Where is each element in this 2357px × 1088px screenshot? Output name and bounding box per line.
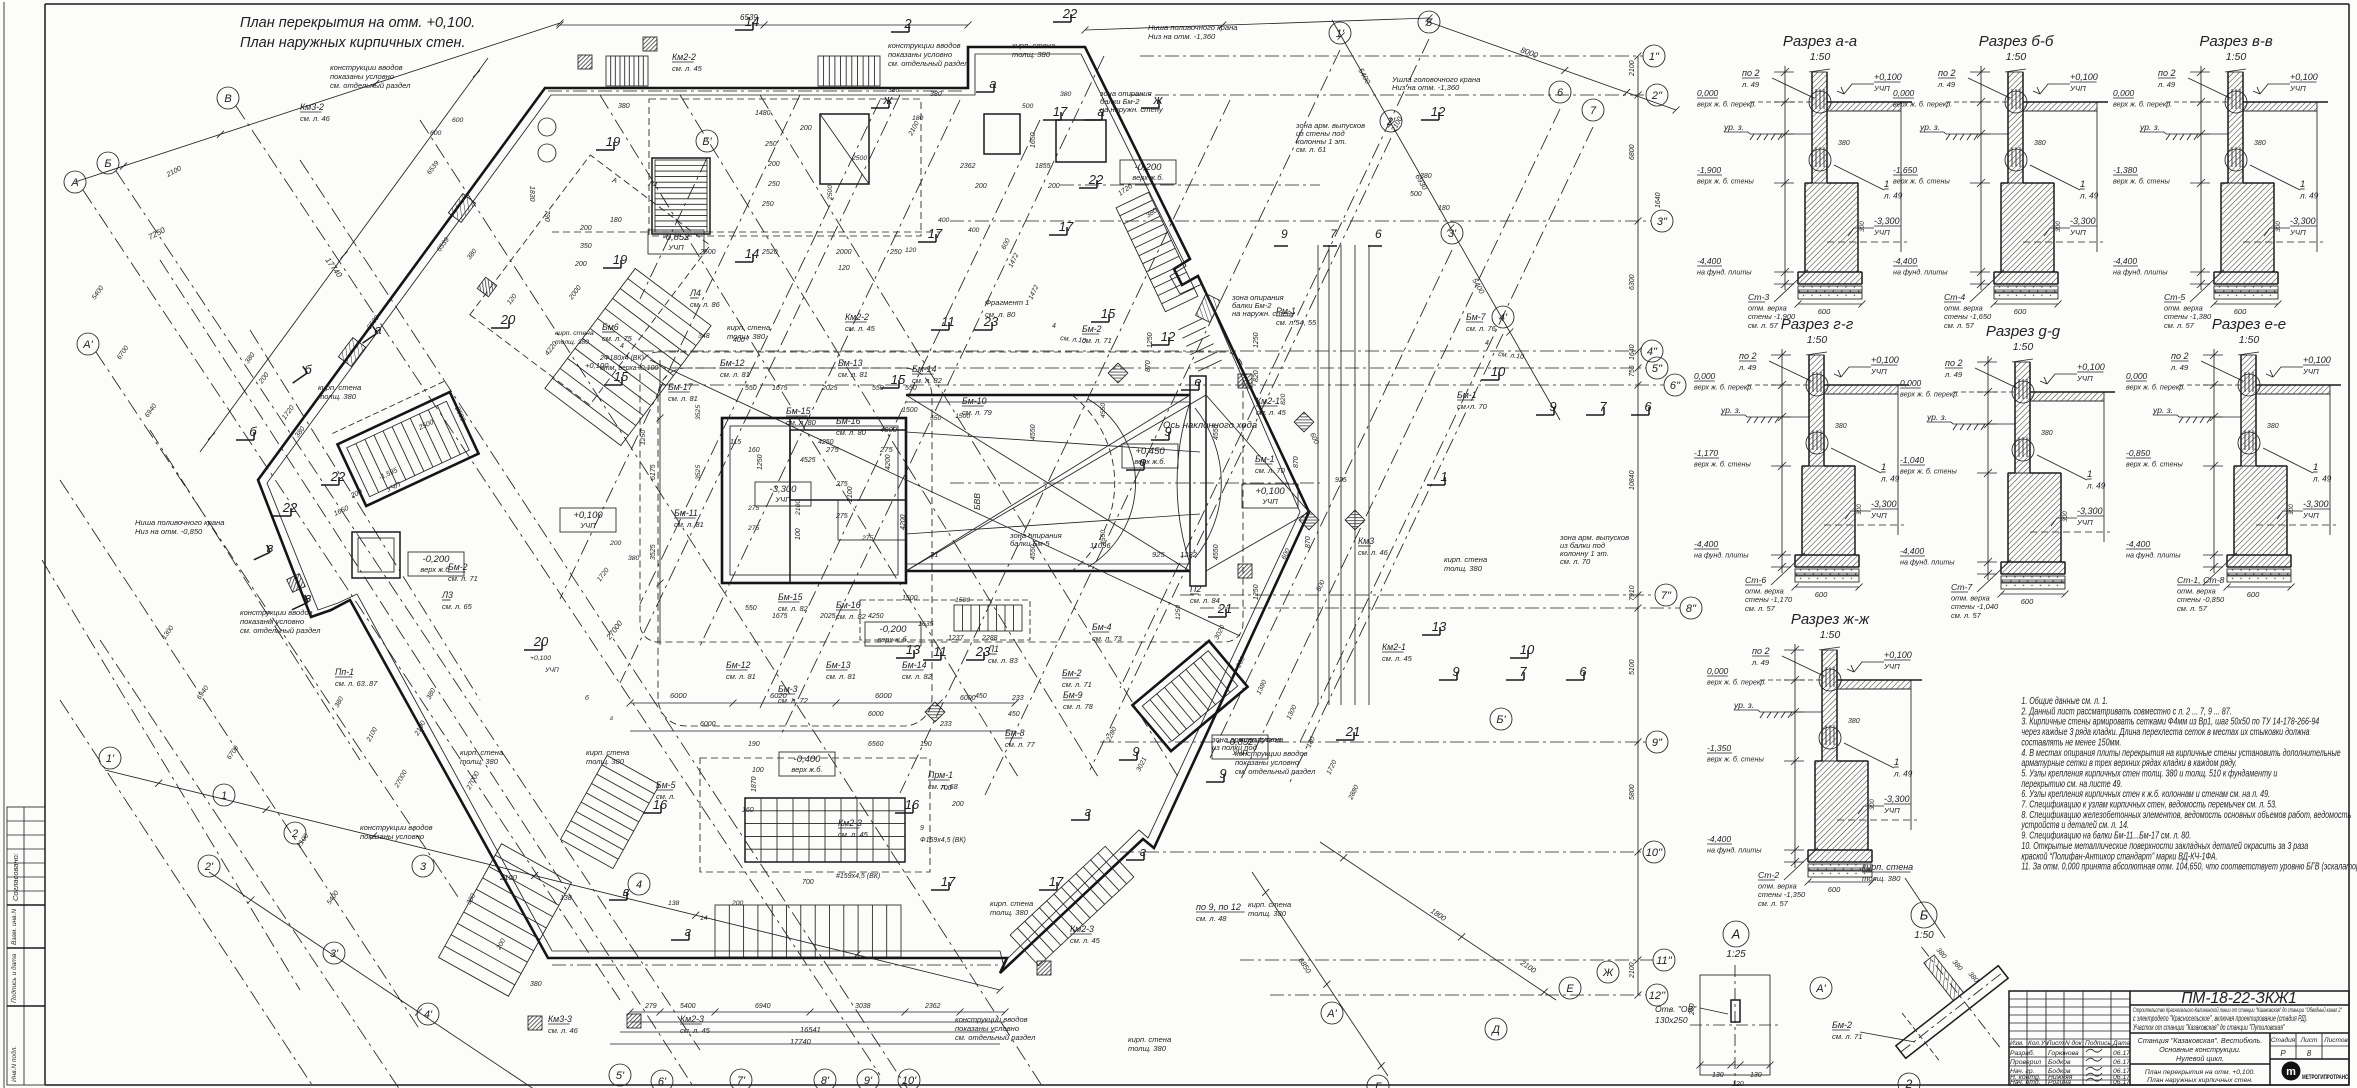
svg-text:2362: 2362 <box>959 163 976 170</box>
svg-text:9: 9 <box>1164 424 1171 439</box>
svg-text:1640: 1640 <box>1629 344 1636 360</box>
svg-text:Км2-3: Км2-3 <box>1070 924 1094 934</box>
svg-text:6000: 6000 <box>868 711 884 718</box>
svg-text:верх ж. б. стены: верх ж. б. стены <box>1900 467 1957 476</box>
svg-text:см. отдельный раздел: см. отдельный раздел <box>955 1033 1036 1042</box>
svg-text:УЧП: УЧП <box>1873 228 1890 237</box>
svg-text:кирп. стена: кирп. стена <box>1128 1035 1171 1044</box>
svg-text:Б': Б' <box>1496 714 1506 726</box>
svg-text:В: В <box>224 93 231 105</box>
svg-text:конструкции вводов: конструкции вводов <box>360 823 433 832</box>
svg-text:6000: 6000 <box>700 721 716 728</box>
svg-text:200: 200 <box>974 183 987 190</box>
svg-text:УЧП: УЧП <box>2302 511 2319 520</box>
svg-text:4200: 4200 <box>885 454 892 470</box>
svg-text:600: 600 <box>2247 590 2260 599</box>
svg-text:19: 19 <box>613 252 627 267</box>
svg-text:см. л. 70: см. л. 70 <box>1255 466 1286 475</box>
svg-text:380: 380 <box>628 555 640 562</box>
svg-text:на фунд. плиты: на фунд. плиты <box>1694 551 1749 560</box>
svg-text:2025: 2025 <box>819 613 836 620</box>
svg-text:верх ж. б. перекр.: верх ж. б. перекр. <box>2113 100 2172 109</box>
svg-text:Проверил: Проверил <box>2010 1059 2041 1066</box>
svg-text:кирп. стена: кирп. стена <box>1012 41 1055 50</box>
svg-text:-4,400: -4,400 <box>1694 539 1718 549</box>
svg-text:550: 550 <box>745 605 757 612</box>
svg-text:11: 11 <box>941 314 955 329</box>
svg-text:см. л. 45: см. л. 45 <box>1256 408 1287 417</box>
svg-text:УЧП: УЧП <box>1261 497 1278 506</box>
svg-text:на фунд. плиты: на фунд. плиты <box>1900 558 1955 567</box>
svg-text:см. л. 61: см. л. 61 <box>1296 145 1326 154</box>
svg-text:Разрез г-г: Разрез г-г <box>1781 316 1854 333</box>
svg-text:л. 49: л. 49 <box>2157 80 2176 89</box>
svg-text:15: 15 <box>1101 306 1116 321</box>
svg-text:1: 1 <box>1894 757 1899 768</box>
svg-text:Дата: Дата <box>2112 1040 2131 1047</box>
svg-text:Р: Р <box>2280 1049 2286 1058</box>
svg-text:17: 17 <box>1049 874 1064 889</box>
svg-text:2100: 2100 <box>1629 60 1636 77</box>
svg-text:1500: 1500 <box>955 597 970 604</box>
svg-text:-3,300: -3,300 <box>2077 506 2103 516</box>
svg-text:1: 1 <box>2087 469 2092 480</box>
svg-text:0,000: 0,000 <box>1893 88 1915 98</box>
svg-text:1:50: 1:50 <box>2006 51 2027 63</box>
svg-text:Л1: Л1 <box>987 644 999 654</box>
svg-text:790: 790 <box>543 210 550 222</box>
svg-text:14: 14 <box>745 246 759 261</box>
svg-text:л. 49: л. 49 <box>1944 370 1963 379</box>
svg-text:-3,300: -3,300 <box>1871 499 1897 509</box>
svg-text:Основные конструкции.: Основные конструкции. <box>2159 1045 2241 1054</box>
svg-text:ПМ-18-22-ЗКЖ1: ПМ-18-22-ЗКЖ1 <box>2181 990 2297 1007</box>
svg-text:см. л. 82: см. л. 82 <box>912 376 943 385</box>
svg-text:14: 14 <box>700 915 708 922</box>
svg-text:1830: 1830 <box>528 186 535 202</box>
svg-text:УЧП: УЧП <box>2289 228 2306 237</box>
svg-text:на наружн. стену: на наружн. стену <box>1100 105 1164 114</box>
svg-text:толщ. 380: толщ. 380 <box>1012 50 1051 59</box>
svg-text:1: 1 <box>2313 462 2318 473</box>
svg-text:см. л. 81: см. л. 81 <box>838 370 868 379</box>
svg-text:толщ. 380: толщ. 380 <box>1248 909 1287 918</box>
svg-text:Л3: Л3 <box>441 590 453 600</box>
svg-text:Нулевой цикл.: Нулевой цикл. <box>2176 1054 2224 1063</box>
svg-text:см. л. 63..87: см. л. 63..87 <box>335 679 378 688</box>
svg-text:550: 550 <box>745 385 757 392</box>
svg-text:кирп. стена: кирп. стена <box>460 748 503 757</box>
svg-text:250: 250 <box>761 201 774 208</box>
svg-text:16541: 16541 <box>800 1025 821 1034</box>
svg-text:600: 600 <box>1815 590 1828 599</box>
svg-text:толщ. 380: толщ. 380 <box>1862 874 1901 883</box>
svg-text:15: 15 <box>891 372 906 387</box>
svg-text:-1,350: -1,350 <box>1707 743 1731 753</box>
svg-text:300: 300 <box>2055 221 2062 232</box>
svg-text:1480: 1480 <box>755 110 771 117</box>
svg-text:6000: 6000 <box>670 691 688 700</box>
svg-text:на фунд. плиты: на фунд. плиты <box>2113 268 2168 277</box>
svg-text:см. л. 57: см. л. 57 <box>1758 899 1789 908</box>
svg-text:250: 250 <box>764 141 777 148</box>
svg-text:275: 275 <box>861 535 874 542</box>
svg-text:см. л. 82: см. л. 82 <box>836 612 867 621</box>
svg-text:б: б <box>249 424 257 439</box>
svg-text:показаны условно: показаны условно <box>240 617 304 626</box>
svg-text:по 2: по 2 <box>1739 351 1756 361</box>
svg-text:Бм-13: Бм-13 <box>826 660 851 670</box>
svg-text:верх ж. б. перекр.: верх ж. б. перекр. <box>2126 383 2185 392</box>
svg-text:см. л. 65: см. л. 65 <box>442 602 473 611</box>
svg-text:0,000: 0,000 <box>2113 88 2135 98</box>
svg-text:в: в <box>623 884 630 899</box>
svg-text:л. 49: л. 49 <box>1751 658 1770 667</box>
svg-text:-0,850: -0,850 <box>2126 448 2150 458</box>
svg-text:см. л. 57: см. л. 57 <box>1951 611 1982 620</box>
svg-text:-4,400: -4,400 <box>1707 834 1731 844</box>
svg-text:ур. з.: ур. з. <box>1733 700 1754 710</box>
svg-text:см. л. 82: см. л. 82 <box>902 672 933 681</box>
svg-text:300: 300 <box>1856 504 1863 515</box>
svg-text:Бм-17: Бм-17 <box>668 382 694 392</box>
svg-text:275: 275 <box>747 525 760 532</box>
svg-text:9'': 9'' <box>1652 737 1663 749</box>
svg-text:верх ж. б. стены: верх ж. б. стены <box>1694 460 1751 469</box>
svg-text:600: 600 <box>2014 307 2027 316</box>
svg-text:УЧП: УЧП <box>2302 367 2319 376</box>
svg-text:755: 755 <box>1629 365 1636 377</box>
svg-text:УЧП: УЧП <box>2076 518 2093 527</box>
svg-text:А: А <box>70 177 78 189</box>
svg-text:1: 1 <box>2300 179 2305 190</box>
svg-text:2100: 2100 <box>795 500 802 516</box>
svg-text:толщ. 380: толщ. 380 <box>318 392 357 401</box>
svg-text:на фунд. плиты: на фунд. плиты <box>1893 268 1948 277</box>
svg-text:2500: 2500 <box>827 185 834 201</box>
svg-text:верх ж. б. перекр.: верх ж. б. перекр. <box>1697 100 1756 109</box>
svg-text:см. л. 45: см. л. 45 <box>845 324 876 333</box>
svg-text:1:50: 1:50 <box>2239 334 2260 346</box>
svg-text:9: 9 <box>1452 664 1459 679</box>
svg-text:180: 180 <box>610 217 622 224</box>
svg-text:отм. верха+0,100: отм. верха+0,100 <box>600 365 658 372</box>
svg-text:Км3: Км3 <box>1358 536 1374 546</box>
svg-text:4: 4 <box>1485 340 1489 347</box>
svg-text:ур. з.: ур. з. <box>1723 122 1744 132</box>
svg-text:см. л. 84: см. л. 84 <box>1190 596 1220 605</box>
svg-text:Бм-8: Бм-8 <box>1005 728 1025 738</box>
svg-text:100: 100 <box>795 528 802 540</box>
svg-text:1:50: 1:50 <box>1914 930 1934 941</box>
svg-text:Лист: Лист <box>2300 1037 2318 1044</box>
svg-text:+0,100: +0,100 <box>530 655 551 662</box>
svg-text:Бм-14: Бм-14 <box>902 660 927 670</box>
svg-text:600: 600 <box>452 117 464 124</box>
svg-text:План перекрытия на отм. +0,100: План перекрытия на отм. +0,100. <box>240 15 475 31</box>
svg-text:9: 9 <box>1549 399 1556 414</box>
svg-text:верх ж.б.: верх ж.б. <box>420 565 451 574</box>
svg-text:1675: 1675 <box>772 613 788 620</box>
svg-text:-0,200: -0,200 <box>880 624 908 635</box>
svg-text:+0,100: +0,100 <box>2303 355 2331 365</box>
svg-text:Г: Г <box>1375 1081 1382 1088</box>
svg-text:кирп. стена: кирп. стена <box>1862 862 1913 872</box>
svg-text:верх ж.б.: верх ж.б. <box>877 635 908 644</box>
svg-text:стены -1,350: стены -1,350 <box>1758 890 1806 899</box>
svg-text:см. л. 46: см. л. 46 <box>548 1026 579 1035</box>
svg-text:275: 275 <box>835 513 848 520</box>
svg-text:Разрез в-в: Разрез в-в <box>2199 33 2272 50</box>
svg-text:1'': 1'' <box>1649 51 1660 63</box>
svg-text:233: 233 <box>1011 695 1024 702</box>
svg-text:Разрез g-g: Разрез g-g <box>1986 323 2061 340</box>
svg-text:6800: 6800 <box>1629 144 1636 160</box>
svg-text:Км3-3: Км3-3 <box>548 1014 572 1024</box>
svg-text:Бм-1: Бм-1 <box>1255 454 1275 464</box>
svg-text:см. л. 57: см. л. 57 <box>1745 604 1776 613</box>
svg-text:БВВ: БВВ <box>972 493 982 510</box>
svg-text:550: 550 <box>930 415 942 422</box>
svg-text:Инв.N подл.: Инв.N подл. <box>10 1046 18 1082</box>
svg-text:12: 12 <box>1161 329 1176 344</box>
svg-text:7: 7 <box>1519 664 1527 679</box>
svg-text:11'': 11'' <box>1656 955 1673 967</box>
svg-text:Рогина: Рогина <box>2048 1079 2071 1086</box>
svg-text:Д: Д <box>1490 1024 1500 1036</box>
svg-text:Бм-1: Бм-1 <box>1457 390 1477 400</box>
svg-text:-3,300: -3,300 <box>1874 216 1900 226</box>
svg-text:-1,650: -1,650 <box>1893 165 1917 175</box>
svg-text:л. 49: л. 49 <box>2299 192 2319 201</box>
svg-text:275: 275 <box>747 505 760 512</box>
svg-text:4550: 4550 <box>1100 403 1107 418</box>
svg-text:Бм-10: Бм-10 <box>962 396 987 406</box>
svg-text:21: 21 <box>1345 724 1360 739</box>
svg-text:380: 380 <box>618 103 630 110</box>
svg-text:Км2-2: Км2-2 <box>845 312 869 322</box>
svg-text:по 9, по 12: по 9, по 12 <box>1196 902 1241 912</box>
svg-text:см. л.: см. л. <box>656 792 675 801</box>
svg-text:Пп-1: Пп-1 <box>335 667 354 677</box>
svg-text:Согласовано:: Согласовано: <box>11 853 20 901</box>
svg-text:-4,400: -4,400 <box>1900 546 1924 556</box>
svg-text:ур. з.: ур. з. <box>2152 405 2173 415</box>
svg-text:17: 17 <box>1059 219 1074 234</box>
svg-text:350: 350 <box>580 243 592 250</box>
svg-text:-4,400: -4,400 <box>2113 256 2137 266</box>
svg-text:Низ на отм. -1,360: Низ на отм. -1,360 <box>1148 32 1216 41</box>
svg-text:1250: 1250 <box>757 454 764 470</box>
svg-text:Кол.Уч: Кол.Уч <box>2028 1040 2049 1047</box>
svg-text:1675: 1675 <box>772 385 788 392</box>
svg-text:см. л. 70: см. л. 70 <box>1560 557 1591 566</box>
svg-text:на фунд. плиты: на фунд. плиты <box>1707 846 1762 855</box>
svg-text:Км2-1: Км2-1 <box>1382 642 1406 652</box>
svg-text:600: 600 <box>430 130 442 137</box>
svg-text:кирп. стена: кирп. стена <box>555 330 594 337</box>
svg-text:Бм-9: Бм-9 <box>1063 690 1083 700</box>
svg-text:см. л. 45: см. л. 45 <box>672 64 703 73</box>
svg-text:л. 49: л. 49 <box>2312 475 2332 484</box>
svg-text:6560: 6560 <box>868 741 884 748</box>
svg-text:см. л. 80: см. л. 80 <box>786 418 817 427</box>
svg-text:275: 275 <box>835 481 848 488</box>
svg-text:380: 380 <box>1838 140 1850 147</box>
svg-text:стены -0,850: стены -0,850 <box>2177 595 2225 604</box>
svg-text:115: 115 <box>730 439 741 446</box>
svg-text:см. л. 81: см. л. 81 <box>668 394 698 403</box>
svg-text:из полки под: из полки под <box>1212 743 1257 752</box>
svg-text:22: 22 <box>330 469 346 484</box>
svg-text:л. 49: л. 49 <box>2079 192 2099 201</box>
svg-text:-3,300: -3,300 <box>2290 216 2316 226</box>
svg-text:6000: 6000 <box>960 695 976 702</box>
svg-text:200: 200 <box>609 540 622 547</box>
svg-text:верх ж.б.: верх ж.б. <box>1132 173 1163 182</box>
svg-text:17: 17 <box>928 226 943 241</box>
svg-text:300: 300 <box>2062 511 2069 522</box>
svg-text:Бм-2: Бм-2 <box>1062 668 1082 678</box>
svg-text:9: 9 <box>920 825 924 832</box>
svg-text:Бм6: Бм6 <box>602 322 619 332</box>
svg-text:Разрез б-б: Разрез б-б <box>1979 33 2054 50</box>
svg-text:л. 49: л. 49 <box>1880 475 1900 484</box>
svg-text:см. л. 81: см. л. 81 <box>674 520 704 529</box>
svg-text:380: 380 <box>1420 173 1432 180</box>
svg-text:-3,300: -3,300 <box>1884 794 1910 804</box>
svg-text:10: 10 <box>1491 364 1506 379</box>
svg-text:Разрез е-е: Разрез е-е <box>2212 316 2286 333</box>
svg-text:ур. з.: ур. з. <box>1926 412 1947 422</box>
svg-text:г: г <box>1085 804 1092 819</box>
svg-text:1: 1 <box>2080 179 2085 190</box>
svg-text:в: в <box>305 590 312 605</box>
svg-text:925: 925 <box>1335 477 1347 484</box>
svg-text:УЧП: УЧП <box>1870 511 1887 520</box>
svg-text:-0,852: -0,852 <box>663 232 691 243</box>
svg-text:4250: 4250 <box>818 439 834 446</box>
svg-text:см. л. 76: см. л. 76 <box>1466 324 1497 333</box>
svg-text:б: б <box>304 362 312 377</box>
svg-text:Бм-11: Бм-11 <box>674 508 698 518</box>
svg-text:см. л. 46: см. л. 46 <box>300 114 331 123</box>
svg-text:А': А' <box>82 339 93 351</box>
svg-text:7: 7 <box>1590 105 1597 117</box>
svg-text:600: 600 <box>1828 885 1841 894</box>
svg-text:-1,380: -1,380 <box>2113 165 2137 175</box>
svg-text:показаны условно: показаны условно <box>360 832 424 841</box>
svg-text:Ст-2: Ст-2 <box>1758 870 1779 880</box>
svg-text:0,000: 0,000 <box>1694 371 1716 381</box>
svg-text:УЧП: УЧП <box>1870 367 1887 376</box>
svg-text:УЧП: УЧП <box>2069 228 2086 237</box>
svg-text:толщ. 380: толщ. 380 <box>990 908 1029 917</box>
svg-text:700: 700 <box>940 785 952 792</box>
svg-text:10': 10' <box>902 1075 917 1087</box>
svg-text:Бм-16: Бм-16 <box>836 600 861 610</box>
svg-text:см. л. 46: см. л. 46 <box>1358 548 1389 557</box>
svg-text:2': 2' <box>204 861 214 873</box>
svg-text:конструкции вводов: конструкции вводов <box>888 41 961 50</box>
svg-text:1250: 1250 <box>1253 584 1260 600</box>
svg-text:2'': 2'' <box>1651 90 1663 102</box>
svg-text:1:50: 1:50 <box>1810 51 1831 63</box>
svg-text:31: 31 <box>930 550 938 559</box>
svg-text:-3,300: -3,300 <box>2303 499 2329 509</box>
svg-text:Км2-3: Км2-3 <box>838 818 862 828</box>
svg-text:Е: Е <box>1566 983 1574 995</box>
svg-text:ур. з.: ур. з. <box>1919 122 1940 132</box>
svg-text:6300: 6300 <box>1629 274 1636 290</box>
svg-text:4550: 4550 <box>1100 530 1107 545</box>
svg-text:e: e <box>1194 374 1201 389</box>
svg-text:550: 550 <box>905 385 917 392</box>
svg-text:см. л. 70: см. л. 70 <box>1457 402 1488 411</box>
svg-text:Бм-7: Бм-7 <box>1466 312 1487 322</box>
svg-text:200: 200 <box>1047 183 1060 190</box>
svg-text:Км2-2: Км2-2 <box>672 52 696 62</box>
svg-text:см. л. 71: см. л. 71 <box>448 574 478 583</box>
svg-text:6000: 6000 <box>875 691 893 700</box>
svg-text:9: 9 <box>1281 227 1288 241</box>
svg-text:Б: Б <box>1920 908 1929 923</box>
svg-text:Взам. инв.N: Взам. инв.N <box>11 909 18 945</box>
svg-text:см. л. 80: см. л. 80 <box>836 428 867 437</box>
svg-text:+0,100: +0,100 <box>1871 355 1899 365</box>
svg-text:л. 49: л. 49 <box>1937 80 1956 89</box>
svg-text:Подпись и дата: Подпись и дата <box>10 953 18 1003</box>
svg-text:см. отдельный раздел: см. отдельный раздел <box>1235 767 1316 776</box>
svg-text:500: 500 <box>1022 103 1034 110</box>
svg-text:4800: 4800 <box>880 425 898 434</box>
svg-text:17: 17 <box>941 874 956 889</box>
svg-text:400: 400 <box>733 337 745 344</box>
svg-text:стены -1,170: стены -1,170 <box>1745 595 1793 604</box>
svg-text:Бм-16: Бм-16 <box>836 416 861 426</box>
svg-text:1500: 1500 <box>902 407 918 414</box>
svg-text:600: 600 <box>2234 307 2247 316</box>
svg-text:4: 4 <box>620 343 624 350</box>
svg-text:275: 275 <box>879 445 893 454</box>
svg-text:N док: N док <box>2065 1039 2083 1047</box>
svg-text:4'': 4'' <box>1647 346 1658 358</box>
svg-text:-1,170: -1,170 <box>1694 448 1718 458</box>
svg-text:см. отдельный раздел: см. отдельный раздел <box>330 81 411 90</box>
svg-text:Бм-14: Бм-14 <box>912 364 937 374</box>
svg-text:2100: 2100 <box>499 873 518 882</box>
svg-text:УЧП: УЧП <box>544 667 559 674</box>
svg-text:см. л. 71: см. л. 71 <box>1082 336 1112 345</box>
svg-text:130х250: 130х250 <box>1655 1015 1688 1025</box>
svg-text:3: 3 <box>420 861 427 873</box>
svg-text:870: 870 <box>1305 536 1312 548</box>
svg-text:1237: 1237 <box>948 635 965 642</box>
svg-text:см. л. 86: см. л. 86 <box>690 300 721 309</box>
svg-text:см. отдельный раздел: см. отдельный раздел <box>240 626 321 635</box>
svg-text:толщ. 380: толщ. 380 <box>1128 1044 1167 1053</box>
svg-text:+0,100: +0,100 <box>573 510 603 521</box>
svg-text:380: 380 <box>2267 423 2279 430</box>
svg-text:Бм-12: Бм-12 <box>726 660 751 670</box>
svg-text:9: 9 <box>1132 744 1139 759</box>
svg-text:6: 6 <box>1579 664 1587 679</box>
svg-text:верх ж. б. перекр.: верх ж. б. перекр. <box>1893 100 1952 109</box>
svg-text:1:50: 1:50 <box>1807 334 1828 346</box>
svg-text:см. л.54, 55: см. л.54, 55 <box>1276 318 1317 327</box>
svg-text:7'': 7'' <box>1661 590 1672 602</box>
svg-text:3525: 3525 <box>650 544 657 560</box>
